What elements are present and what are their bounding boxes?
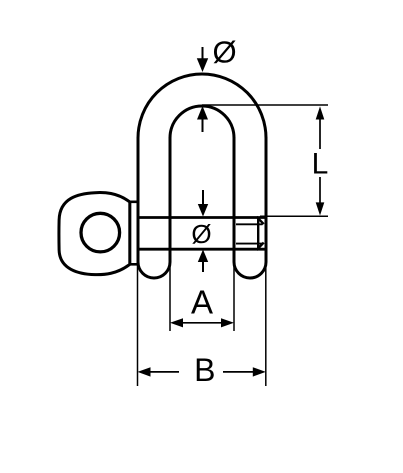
right leg outer line <box>265 137 268 262</box>
left leg inner line <box>169 137 172 262</box>
svg-text:Ø: Ø <box>212 34 236 69</box>
pin diameter arrow (up, below pin) <box>198 250 208 263</box>
A right extension line <box>233 262 235 331</box>
pin diameter arrow (down, above pin) <box>202 190 204 205</box>
svg-text:B: B <box>194 352 215 388</box>
pin head eye hole <box>81 213 120 252</box>
right leg rounded bottom <box>234 262 266 278</box>
left leg outer line <box>137 137 140 262</box>
B left extension line <box>137 262 139 386</box>
pin end bottom chamfer <box>257 243 264 250</box>
svg-text:Ø: Ø <box>191 219 211 249</box>
inner bow top arrow (up) <box>197 106 208 120</box>
pin thread minor line bottom <box>236 243 263 245</box>
L top extension line <box>202 104 328 106</box>
A left extension line <box>169 262 171 331</box>
svg-text:A: A <box>191 284 213 321</box>
B right extension line <box>265 262 267 386</box>
pin collar <box>130 202 138 264</box>
pin end face <box>257 218 259 250</box>
shackle bow inner arch <box>170 106 234 138</box>
A dimension line with arrows <box>170 318 183 327</box>
B dimension line with arrows <box>138 367 151 376</box>
top diameter dimension arrow (down) <box>202 47 204 60</box>
pin top line <box>137 216 266 219</box>
pin bottom line <box>137 248 266 251</box>
pin end top chamfer <box>257 217 264 224</box>
pin head <box>59 193 130 275</box>
svg-text:L: L <box>312 148 329 181</box>
shackle bow outer arch <box>138 74 266 138</box>
left leg rounded bottom <box>138 262 170 278</box>
pin thread minor line top <box>236 223 263 225</box>
L bottom extension line <box>260 215 328 217</box>
right leg inner line <box>233 137 236 262</box>
L dimension line with arrows <box>316 106 325 119</box>
